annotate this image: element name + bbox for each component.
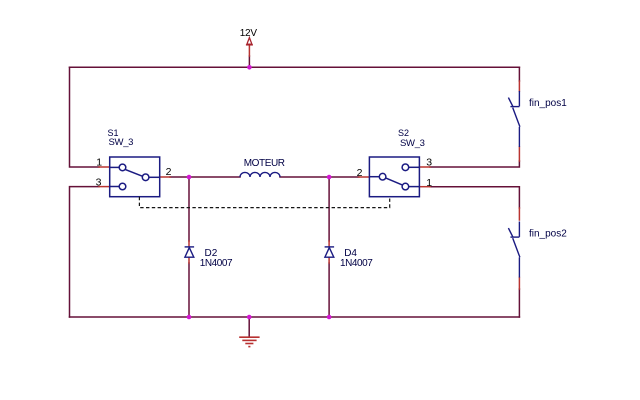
svg-text:1N4007: 1N4007 — [200, 258, 233, 269]
svg-text:3: 3 — [96, 176, 102, 188]
svg-text:S2: S2 — [398, 128, 409, 138]
svg-text:1: 1 — [96, 156, 102, 168]
svg-text:fin_pos2: fin_pos2 — [529, 228, 567, 239]
svg-text:2: 2 — [166, 166, 172, 178]
svg-text:1: 1 — [426, 177, 432, 189]
svg-text:fin_pos1: fin_pos1 — [529, 98, 567, 109]
svg-text:SW_3: SW_3 — [400, 138, 425, 149]
svg-text:12V: 12V — [240, 28, 258, 39]
svg-text:MOTEUR: MOTEUR — [244, 158, 285, 169]
svg-text:2: 2 — [357, 167, 363, 179]
svg-text:3: 3 — [426, 157, 432, 169]
svg-text:SW_3: SW_3 — [109, 137, 134, 148]
svg-text:1N4007: 1N4007 — [340, 258, 373, 269]
